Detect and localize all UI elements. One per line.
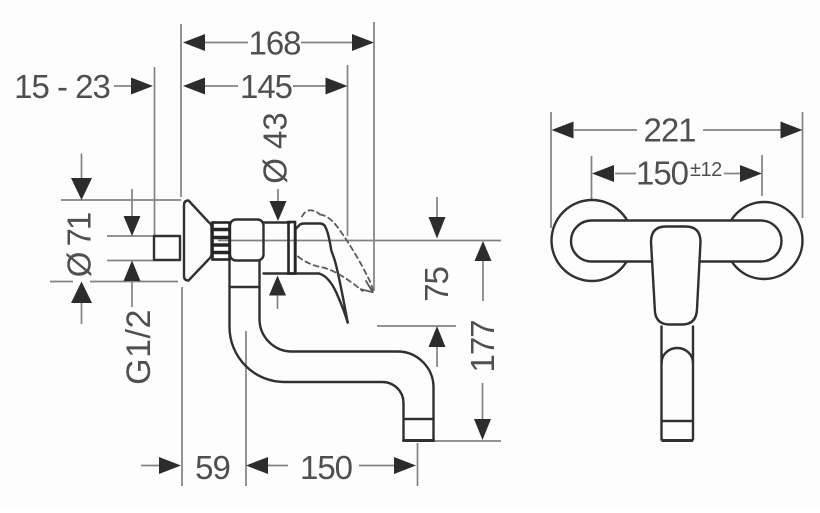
svg-text:145: 145 (240, 68, 292, 105)
svg-text:177: 177 (464, 320, 501, 372)
svg-text:59: 59 (195, 449, 230, 486)
svg-text:75: 75 (418, 267, 455, 302)
svg-text:Ø 43: Ø 43 (257, 112, 294, 184)
svg-text:150: 150 (300, 449, 353, 486)
svg-text:±12: ±12 (690, 159, 722, 181)
svg-text:168: 168 (248, 25, 300, 62)
svg-text:150: 150 (636, 155, 689, 192)
svg-text:G1/2: G1/2 (120, 309, 158, 385)
svg-text:Ø 71: Ø 71 (61, 213, 98, 277)
svg-text:15 - 23: 15 - 23 (14, 68, 110, 105)
svg-text:221: 221 (643, 112, 695, 149)
